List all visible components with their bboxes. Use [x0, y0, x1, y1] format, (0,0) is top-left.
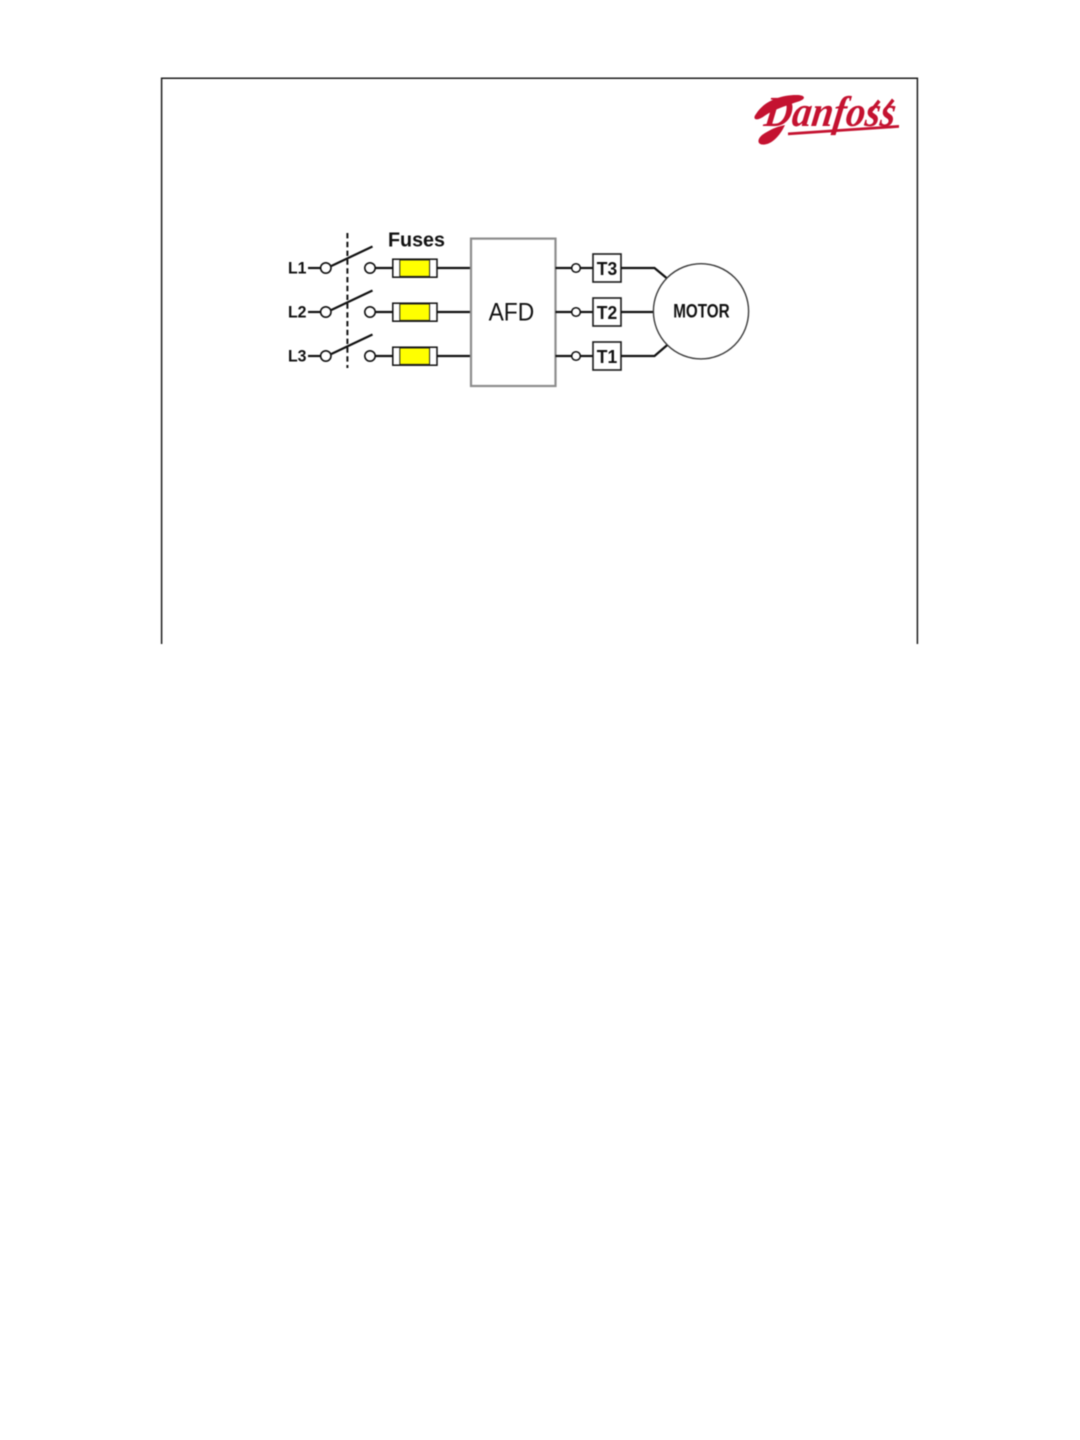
wire fuse F2 to AFD — [437, 311, 471, 313]
wire terminal circle to T3 box — [580, 267, 593, 269]
wire L2 to switch — [308, 311, 321, 313]
svg-text:T3: T3 — [597, 259, 617, 279]
svg-text:T1: T1 — [597, 347, 617, 367]
wire L1 to switch — [308, 267, 321, 269]
output terminal circle (T2 line) — [572, 308, 581, 317]
wire T3 to motor — [621, 268, 667, 279]
svg-text:AFD: AFD — [489, 299, 535, 327]
fuse F3 — [393, 347, 437, 365]
disconnect switch pole L3 — [321, 335, 376, 362]
wire switch to fuse F1 — [375, 267, 393, 269]
svg-text:L2: L2 — [288, 303, 307, 321]
wire T1 to motor — [621, 345, 667, 356]
switch gang dashed line — [346, 233, 348, 368]
fuse F1 — [393, 259, 437, 277]
disconnect switch pole L1 — [321, 247, 376, 274]
svg-text:T2: T2 — [597, 303, 617, 323]
terminal T2 — [593, 298, 621, 326]
wire switch to fuse F3 — [375, 355, 393, 357]
Danfoss logo — [754, 88, 899, 144]
wire AFD to output terminal T2 — [556, 311, 572, 313]
page border frame (top/left/right, open bottom) — [162, 78, 918, 644]
svg-text:Fuses: Fuses — [388, 230, 445, 252]
wire L3 to switch — [308, 355, 321, 357]
wire terminal circle to T1 box — [580, 355, 593, 357]
fuse F2 — [393, 303, 437, 321]
wire switch to fuse F2 — [375, 311, 393, 313]
wire terminal circle to T2 box — [580, 311, 593, 313]
svg-text:L1: L1 — [288, 259, 307, 277]
disconnect switch pole L2 — [321, 291, 376, 318]
wire fuse F3 to AFD — [437, 355, 471, 357]
terminal T3 — [593, 254, 621, 282]
wire fuse F1 to AFD — [437, 267, 471, 269]
wire AFD to output terminal T1 — [556, 355, 572, 357]
AFD drive U1 — [471, 239, 556, 386]
svg-text:L3: L3 — [288, 347, 307, 365]
motor M1 — [653, 264, 748, 359]
output terminal circle (T3 line) — [572, 264, 581, 273]
wire T2 to motor — [621, 311, 654, 313]
wire AFD to output terminal T3 — [556, 267, 572, 269]
terminal T1 — [593, 342, 621, 370]
svg-text:MOTOR: MOTOR — [673, 301, 729, 323]
output terminal circle (T1 line) — [572, 352, 581, 361]
